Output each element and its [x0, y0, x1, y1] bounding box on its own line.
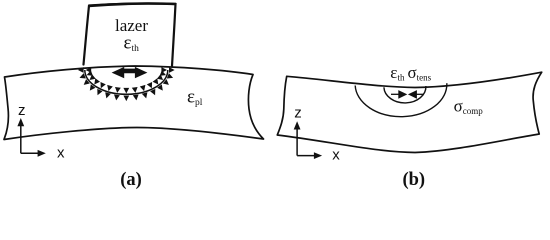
plastic zone arc — [85, 70, 168, 94]
axis A: x arrow — [21, 152, 40, 154]
inward tension arrow (left half) — [391, 93, 399, 95]
strain arrow pair 5 on plastic zone arc — [147, 82, 156, 95]
inward tension arrow (right half) — [416, 93, 424, 95]
inner tension semicircle — [384, 86, 426, 103]
strain arrow pair 2 on plastic zone arc — [160, 70, 173, 78]
svg-text:(a): (a) — [120, 170, 142, 190]
axis B: z arrow — [296, 128, 298, 156]
laser beam top edge (thicker) — [89, 4, 177, 6]
outer compression semicircle — [355, 83, 447, 116]
strain arrow pair 12 on plastic zone arc — [90, 78, 100, 90]
strain arrow pair 11 on plastic zone arc — [97, 82, 106, 95]
strain arrow pair 3 on plastic zone arc — [157, 74, 169, 85]
strain arrow pair 8 on plastic zone arc — [123, 88, 129, 101]
axis A: z arrow — [20, 125, 22, 154]
strain arrow pair 10 on plastic zone arc — [105, 85, 113, 99]
strain arrow pair 7 on plastic zone arc — [132, 87, 139, 100]
strain arrow pair 4 on plastic zone arc — [153, 78, 163, 90]
strain arrow pair 1 on plastic zone arc — [161, 67, 174, 73]
svg-text:x: x — [332, 146, 340, 163]
strain arrow pair 6 on plastic zone arc — [140, 85, 148, 99]
svg-text:z: z — [18, 102, 26, 119]
strain arrow pair 14 on plastic zone arc — [80, 70, 93, 78]
svg-text:lazer: lazer — [115, 16, 148, 35]
strain arrow pair 13 on plastic zone arc — [84, 74, 96, 85]
strain arrow pair 9 on plastic zone arc — [114, 87, 121, 100]
axis B: x arrow — [297, 155, 316, 157]
laser beam outline — [84, 4, 176, 67]
svg-text:(b): (b) — [402, 170, 425, 190]
slab A (heated plate) outline — [4, 66, 264, 140]
thermal expansion double arrow — [112, 67, 148, 78]
svg-text:x: x — [57, 144, 65, 161]
slab B (cooled plate, bowed) outline — [277, 72, 541, 152]
svg-text:z: z — [294, 105, 302, 122]
strain arrow pair 15 on plastic zone arc — [78, 67, 91, 73]
